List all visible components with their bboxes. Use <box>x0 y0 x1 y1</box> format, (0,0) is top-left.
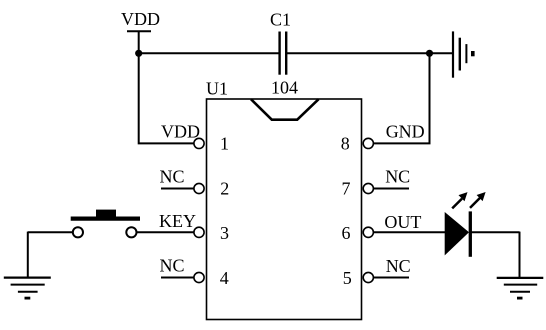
svg-text:OUT: OUT <box>384 212 421 232</box>
svg-text:VDD: VDD <box>161 122 200 142</box>
svg-text:6: 6 <box>342 223 351 243</box>
svg-text:5: 5 <box>343 268 352 288</box>
svg-text:1: 1 <box>220 134 229 154</box>
svg-text:NC: NC <box>385 166 410 186</box>
svg-text:NC: NC <box>386 256 411 276</box>
svg-text:U1: U1 <box>206 79 228 99</box>
svg-text:8: 8 <box>341 134 350 154</box>
svg-text:4: 4 <box>220 268 229 288</box>
svg-text:NC: NC <box>160 166 185 186</box>
svg-text:KEY: KEY <box>159 211 196 231</box>
svg-text:C1: C1 <box>270 10 291 30</box>
svg-text:7: 7 <box>342 178 351 198</box>
svg-text:GND: GND <box>386 122 425 142</box>
svg-text:NC: NC <box>160 256 185 276</box>
svg-text:VDD: VDD <box>121 9 160 29</box>
svg-text:104: 104 <box>271 78 298 98</box>
svg-text:2: 2 <box>220 178 229 198</box>
svg-text:3: 3 <box>220 223 229 243</box>
